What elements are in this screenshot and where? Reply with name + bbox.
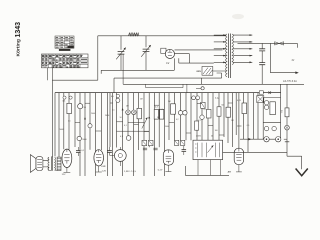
wire stub d	[110, 102, 113, 104]
trimmer C9	[132, 110, 137, 115]
tube LV	[161, 48, 175, 58]
variable capacitor C2	[141, 36, 151, 71]
variable capacitor C1	[116, 36, 126, 71]
resistor R9	[281, 84, 289, 125]
svg-text:1,4V: 1,4V	[102, 171, 107, 173]
fuse F1	[275, 42, 284, 45]
wire box legs	[198, 160, 221, 176]
svg-text:5000: 5000	[60, 129, 64, 131]
capacitor C13	[183, 111, 187, 115]
wire heater arrow	[270, 43, 298, 74]
coupling capacitor C15	[107, 147, 112, 156]
top cap box B2	[148, 140, 153, 145]
resistor R1	[129, 33, 140, 36]
capacitor C11	[259, 63, 265, 85]
table T1 caption	[59, 49, 71, 51]
wire stub i	[169, 121, 174, 123]
voltage table T2	[42, 54, 89, 68]
wire link long a	[117, 130, 150, 132]
wire heater run	[223, 151, 287, 153]
wire bus upper right	[114, 73, 222, 93]
resistor R10	[217, 107, 221, 116]
svg-text:1M: 1M	[231, 120, 234, 122]
wire stub l	[208, 124, 213, 126]
capacitor C8b	[126, 136, 131, 141]
svg-text:0,1: 0,1	[161, 109, 164, 111]
terminal pair	[192, 96, 200, 100]
detector D1	[110, 147, 126, 166]
capacitor C6	[77, 136, 81, 140]
pilot lamp P1	[264, 137, 269, 142]
wire LV cathode	[175, 54, 214, 64]
filter choke CH1	[57, 157, 61, 170]
svg-text:4V: 4V	[292, 60, 295, 62]
scan smudge (faint)	[232, 14, 244, 19]
terminal block	[259, 91, 263, 94]
svg-text:0,1: 0,1	[204, 109, 207, 111]
svg-text:5000: 5000	[165, 126, 169, 128]
TR1 secondary taps	[233, 34, 252, 63]
pilot lamp P2	[276, 137, 281, 142]
resistor R5	[171, 104, 176, 114]
loudspeaker LS	[30, 155, 43, 173]
svg-text:0,1: 0,1	[124, 125, 127, 127]
capacitor C22	[200, 115, 204, 119]
top cap box B3	[174, 140, 178, 145]
svg-text:2000: 2000	[91, 113, 95, 115]
arrow tick c	[84, 117, 86, 119]
trimmer C8	[126, 110, 131, 115]
wire bracket	[146, 85, 187, 93]
wire tuning bottom	[101, 70, 174, 74]
svg-text:1M: 1M	[126, 106, 129, 108]
arrow tick a	[122, 108, 124, 110]
wire earth run	[287, 156, 302, 169]
arrow tick b	[148, 116, 150, 118]
capacitor C17	[264, 101, 268, 105]
svg-text:4,65V: 4,65V	[196, 136, 202, 138]
svg-text:0,3: 0,3	[155, 106, 158, 108]
tube V1 output	[62, 149, 72, 172]
top cap box B4	[180, 140, 184, 145]
resistor R4	[154, 109, 158, 119]
resistor R8	[270, 102, 276, 115]
wire left rail	[51, 80, 53, 157]
svg-text:Körting: Körting	[16, 39, 22, 56]
wire bus middle	[123, 83, 304, 85]
svg-text:mA 770 ≙ 4Ω: mA 770 ≙ 4Ω	[283, 80, 297, 83]
wire table legs	[48, 68, 53, 80]
svg-text:100: 100	[215, 130, 218, 132]
potentiometer arrow	[142, 118, 148, 129]
tube V3	[163, 150, 173, 172]
comb of dropper wires	[55, 93, 258, 176]
wire stub j	[186, 132, 191, 134]
grid capacitor Cg1	[143, 148, 147, 150]
svg-text:50: 50	[120, 117, 122, 119]
resistor R2	[67, 103, 72, 113]
svg-text:0,2: 0,2	[176, 119, 179, 121]
wire bottom bus	[185, 166, 229, 175]
capacitor C19	[264, 126, 268, 130]
capacitor C21	[88, 124, 92, 128]
wire link long b	[128, 121, 144, 123]
transformer TR1 core	[228, 34, 230, 79]
wire tuning to ground	[173, 58, 175, 70]
wire stub k	[197, 103, 202, 105]
svg-text:0,1: 0,1	[68, 120, 71, 122]
TR1 secondary winding	[232, 34, 233, 65]
capacitor C20	[272, 126, 276, 130]
svg-text:220V: 220V	[196, 71, 201, 73]
wire bus main	[55, 92, 281, 94]
capacitor C7b	[116, 94, 119, 97]
svg-text:12V: 12V	[62, 174, 66, 176]
title Körting 1343 (rotated)	[15, 22, 22, 57]
capacitor C4	[69, 96, 72, 99]
resistor R4b	[160, 109, 164, 119]
wire stub g	[144, 131, 149, 133]
svg-text:0,1: 0,1	[120, 136, 123, 138]
capacitor C7	[116, 98, 120, 102]
wire stub o	[237, 125, 242, 127]
coupling capacitor C14	[76, 147, 85, 156]
tube V5 rectifier	[234, 148, 243, 172]
TR1 primary winding	[226, 34, 227, 77]
capacitor C10	[259, 43, 265, 62]
capacitor C12	[178, 111, 182, 115]
capacitor C3	[63, 96, 66, 99]
band switch box	[193, 140, 223, 159]
terminal a	[196, 87, 204, 90]
svg-text:0,1V: 0,1V	[158, 170, 163, 172]
capacitor C5	[78, 104, 83, 109]
wire left drop	[97, 36, 99, 80]
resistor R3	[137, 108, 142, 119]
wire subcircuit frame	[263, 84, 280, 139]
svg-text:1,35V ≙ 0,5: 1,35V ≙ 0,5	[124, 170, 137, 173]
svg-text:2M: 2M	[168, 101, 171, 103]
tube table T1	[55, 36, 74, 48]
lamp L1	[285, 125, 290, 156]
resistor R11	[195, 121, 199, 130]
wire lamp to chain	[284, 138, 287, 140]
svg-text:0,5: 0,5	[247, 125, 250, 127]
TR1 primary taps	[214, 34, 226, 63]
wire stub c	[96, 130, 102, 132]
svg-text:LV: LV	[166, 62, 169, 65]
coupling capacitor C16	[182, 146, 187, 155]
svg-text:LWF: LWF	[101, 166, 106, 168]
wire bus upper left	[52, 79, 98, 81]
output transformer TR2	[43, 156, 59, 170]
wire HT	[238, 43, 298, 47]
wire stub a	[85, 102, 90, 104]
wire stub h	[154, 104, 159, 106]
wire stub n	[228, 102, 233, 104]
svg-text:0,5: 0,5	[112, 110, 115, 112]
earth arrow	[296, 169, 308, 176]
svg-text:1343: 1343	[15, 22, 22, 38]
wire stub f	[134, 124, 139, 126]
wire LV anode	[175, 49, 223, 51]
svg-text:50: 50	[211, 136, 213, 138]
wire stub e	[117, 121, 123, 123]
svg-text:2000: 2000	[105, 115, 109, 117]
wire stub b	[75, 122, 80, 124]
wire varcap to bus	[122, 54, 124, 84]
wire antenna top	[98, 35, 227, 37]
tube V2	[94, 150, 104, 172]
svg-text:0,5: 0,5	[111, 96, 114, 98]
svg-text:50: 50	[157, 117, 159, 119]
resistor R6	[226, 107, 231, 117]
wire stub m	[219, 134, 224, 136]
grid capacitor Cg2	[153, 148, 157, 150]
top cap box B1	[142, 140, 147, 145]
wire lamp line	[240, 138, 263, 140]
junction X	[268, 91, 271, 94]
resistor R7	[242, 103, 247, 114]
switch box S2	[257, 96, 264, 103]
mains switch S1	[196, 67, 226, 76]
resistor R12	[206, 109, 211, 118]
capacitor C18	[264, 105, 268, 109]
switch box S3	[201, 102, 205, 108]
